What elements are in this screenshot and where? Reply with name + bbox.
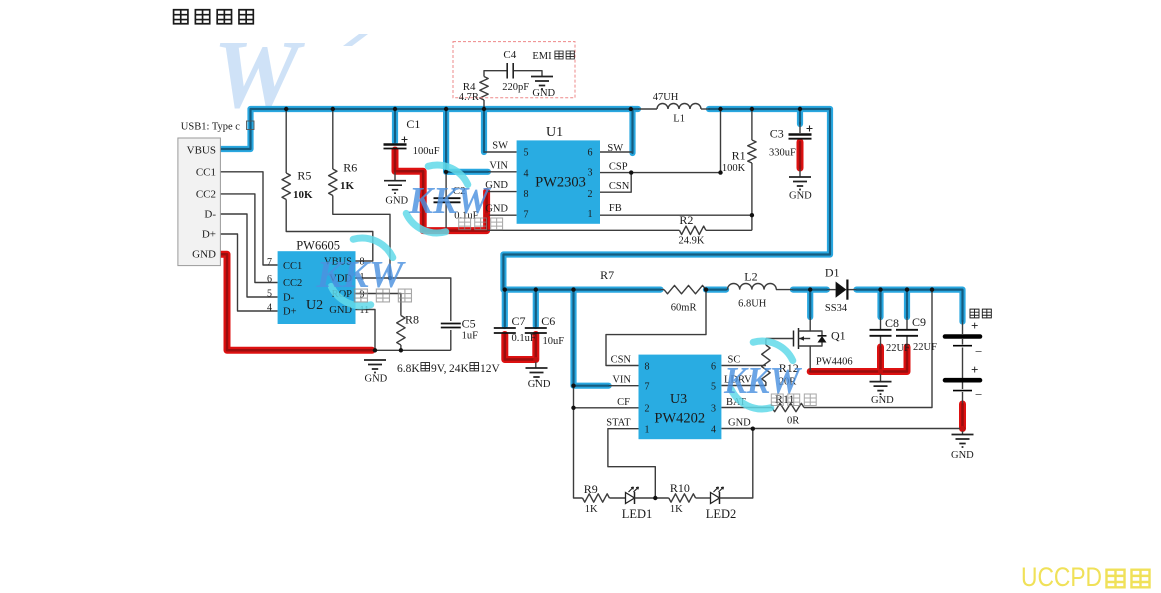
svg-text:3: 3 xyxy=(711,404,716,415)
svg-text:10uF: 10uF xyxy=(543,336,565,347)
svg-text:220pF: 220pF xyxy=(502,82,529,93)
svg-text:R7: R7 xyxy=(600,268,614,282)
svg-text:VIN: VIN xyxy=(489,160,508,171)
svg-text:22UF: 22UF xyxy=(913,342,937,353)
svg-text:U2: U2 xyxy=(306,298,323,313)
svg-text:C7: C7 xyxy=(512,314,526,328)
svg-text:PW4202: PW4202 xyxy=(654,410,705,426)
svg-text:L2: L2 xyxy=(744,269,757,283)
svg-text:CC2: CC2 xyxy=(283,278,302,289)
svg-text:U3: U3 xyxy=(670,392,687,407)
svg-text:R10: R10 xyxy=(670,481,690,495)
svg-text:D-: D- xyxy=(283,293,295,304)
svg-text:GND: GND xyxy=(385,196,408,207)
svg-text:5: 5 xyxy=(267,288,272,299)
svg-text:GND: GND xyxy=(728,418,751,429)
svg-text:VBUS: VBUS xyxy=(187,145,216,157)
svg-text:330uF: 330uF xyxy=(769,148,796,159)
svg-text:C1: C1 xyxy=(406,117,420,131)
svg-text:6: 6 xyxy=(711,362,716,373)
svg-text:5: 5 xyxy=(524,148,529,159)
svg-text:22UF: 22UF xyxy=(886,343,910,354)
svg-text:2: 2 xyxy=(588,189,593,200)
svg-text:CSN: CSN xyxy=(611,355,632,366)
svg-text:D-: D- xyxy=(204,209,216,221)
svg-text:R6: R6 xyxy=(343,161,357,175)
svg-text:+: + xyxy=(971,362,978,377)
svg-text:PW4406: PW4406 xyxy=(816,357,853,368)
svg-text:1K: 1K xyxy=(340,180,355,192)
svg-text:1K: 1K xyxy=(585,504,598,515)
svg-text:4: 4 xyxy=(267,302,272,313)
svg-text:10K: 10K xyxy=(293,189,313,201)
svg-text:STAT: STAT xyxy=(606,418,631,429)
svg-text:5: 5 xyxy=(711,382,716,393)
svg-text:PW6605: PW6605 xyxy=(296,239,340,253)
svg-text:6: 6 xyxy=(267,274,272,285)
svg-text:R5: R5 xyxy=(297,169,311,183)
svg-text:24.9K: 24.9K xyxy=(679,236,705,247)
svg-text:KKW: KKW xyxy=(723,360,803,402)
svg-text:12V: 12V xyxy=(480,363,501,375)
svg-text:100K: 100K xyxy=(722,163,746,174)
svg-text:UCCPD: UCCPD xyxy=(1021,562,1102,592)
svg-text:8: 8 xyxy=(645,362,650,373)
svg-text:60mR: 60mR xyxy=(671,303,697,314)
svg-text:GND: GND xyxy=(192,249,216,261)
svg-text:24K: 24K xyxy=(449,363,470,375)
svg-text:0R: 0R xyxy=(787,416,799,427)
svg-text:2: 2 xyxy=(645,404,650,415)
svg-text:1: 1 xyxy=(588,209,593,220)
svg-text:EMI: EMI xyxy=(532,51,552,62)
svg-text:CSN: CSN xyxy=(609,181,630,192)
svg-text:D1: D1 xyxy=(825,266,840,280)
svg-text:0.1uF: 0.1uF xyxy=(512,333,536,344)
svg-text:C9: C9 xyxy=(912,315,926,329)
svg-text:SW: SW xyxy=(492,141,508,152)
svg-text:D+: D+ xyxy=(283,307,297,318)
svg-text:GND: GND xyxy=(871,395,894,406)
svg-text:LED2: LED2 xyxy=(706,507,737,521)
svg-text:CSP: CSP xyxy=(609,162,628,173)
svg-text:8: 8 xyxy=(524,189,529,200)
svg-text:Q1: Q1 xyxy=(831,328,846,342)
svg-text:4: 4 xyxy=(711,425,716,436)
svg-text:GND: GND xyxy=(365,374,388,385)
svg-text:6.8UH: 6.8UH xyxy=(738,299,767,310)
svg-text:L1: L1 xyxy=(673,113,685,124)
svg-text:R1: R1 xyxy=(732,149,746,163)
svg-text:100uF: 100uF xyxy=(413,146,440,157)
svg-text:R2: R2 xyxy=(679,213,693,227)
svg-text:+: + xyxy=(971,318,978,333)
svg-text:−: − xyxy=(975,344,982,359)
svg-text:CC1: CC1 xyxy=(283,261,302,272)
svg-text:USB1: Type c: USB1: Type c xyxy=(181,121,240,132)
svg-text:PW2303: PW2303 xyxy=(535,174,586,190)
svg-text:CC2: CC2 xyxy=(196,188,216,200)
svg-text:7: 7 xyxy=(267,257,272,268)
svg-text:−: − xyxy=(975,387,982,402)
svg-text:U1: U1 xyxy=(546,125,563,140)
svg-text:R8: R8 xyxy=(405,313,419,327)
svg-text:47UH: 47UH xyxy=(653,92,679,103)
svg-text:C3: C3 xyxy=(770,126,784,140)
svg-text:1: 1 xyxy=(645,425,650,436)
svg-text:4.7R: 4.7R xyxy=(459,92,479,103)
svg-text:1K: 1K xyxy=(670,504,683,515)
svg-text:C5: C5 xyxy=(462,317,476,331)
svg-text:4: 4 xyxy=(524,169,529,180)
svg-text:CC1: CC1 xyxy=(196,166,216,178)
svg-text:7: 7 xyxy=(645,382,650,393)
svg-text:D+: D+ xyxy=(202,229,216,241)
svg-text:7: 7 xyxy=(524,210,529,221)
svg-text:GND: GND xyxy=(532,88,555,99)
svg-text:GND: GND xyxy=(951,450,974,461)
svg-text:C6: C6 xyxy=(541,314,555,328)
svg-text:1uF: 1uF xyxy=(462,330,479,341)
svg-text:KKW: KKW xyxy=(408,180,492,222)
svg-text:6.8K: 6.8K xyxy=(397,363,420,375)
svg-text:FB: FB xyxy=(609,203,622,214)
svg-text:VIN: VIN xyxy=(612,375,631,386)
svg-text:9V,: 9V, xyxy=(431,363,447,375)
svg-text:C4: C4 xyxy=(503,49,516,61)
svg-text:GND: GND xyxy=(528,379,551,390)
svg-text:6: 6 xyxy=(588,148,593,159)
svg-text:3: 3 xyxy=(588,168,593,179)
svg-text:GND: GND xyxy=(789,191,812,202)
svg-text:R9: R9 xyxy=(584,482,598,496)
svg-text:C8: C8 xyxy=(885,316,899,330)
svg-text:SS34: SS34 xyxy=(825,303,848,314)
svg-text:LED1: LED1 xyxy=(622,507,653,521)
svg-text:SW: SW xyxy=(607,143,623,154)
svg-text:CF: CF xyxy=(617,397,630,408)
